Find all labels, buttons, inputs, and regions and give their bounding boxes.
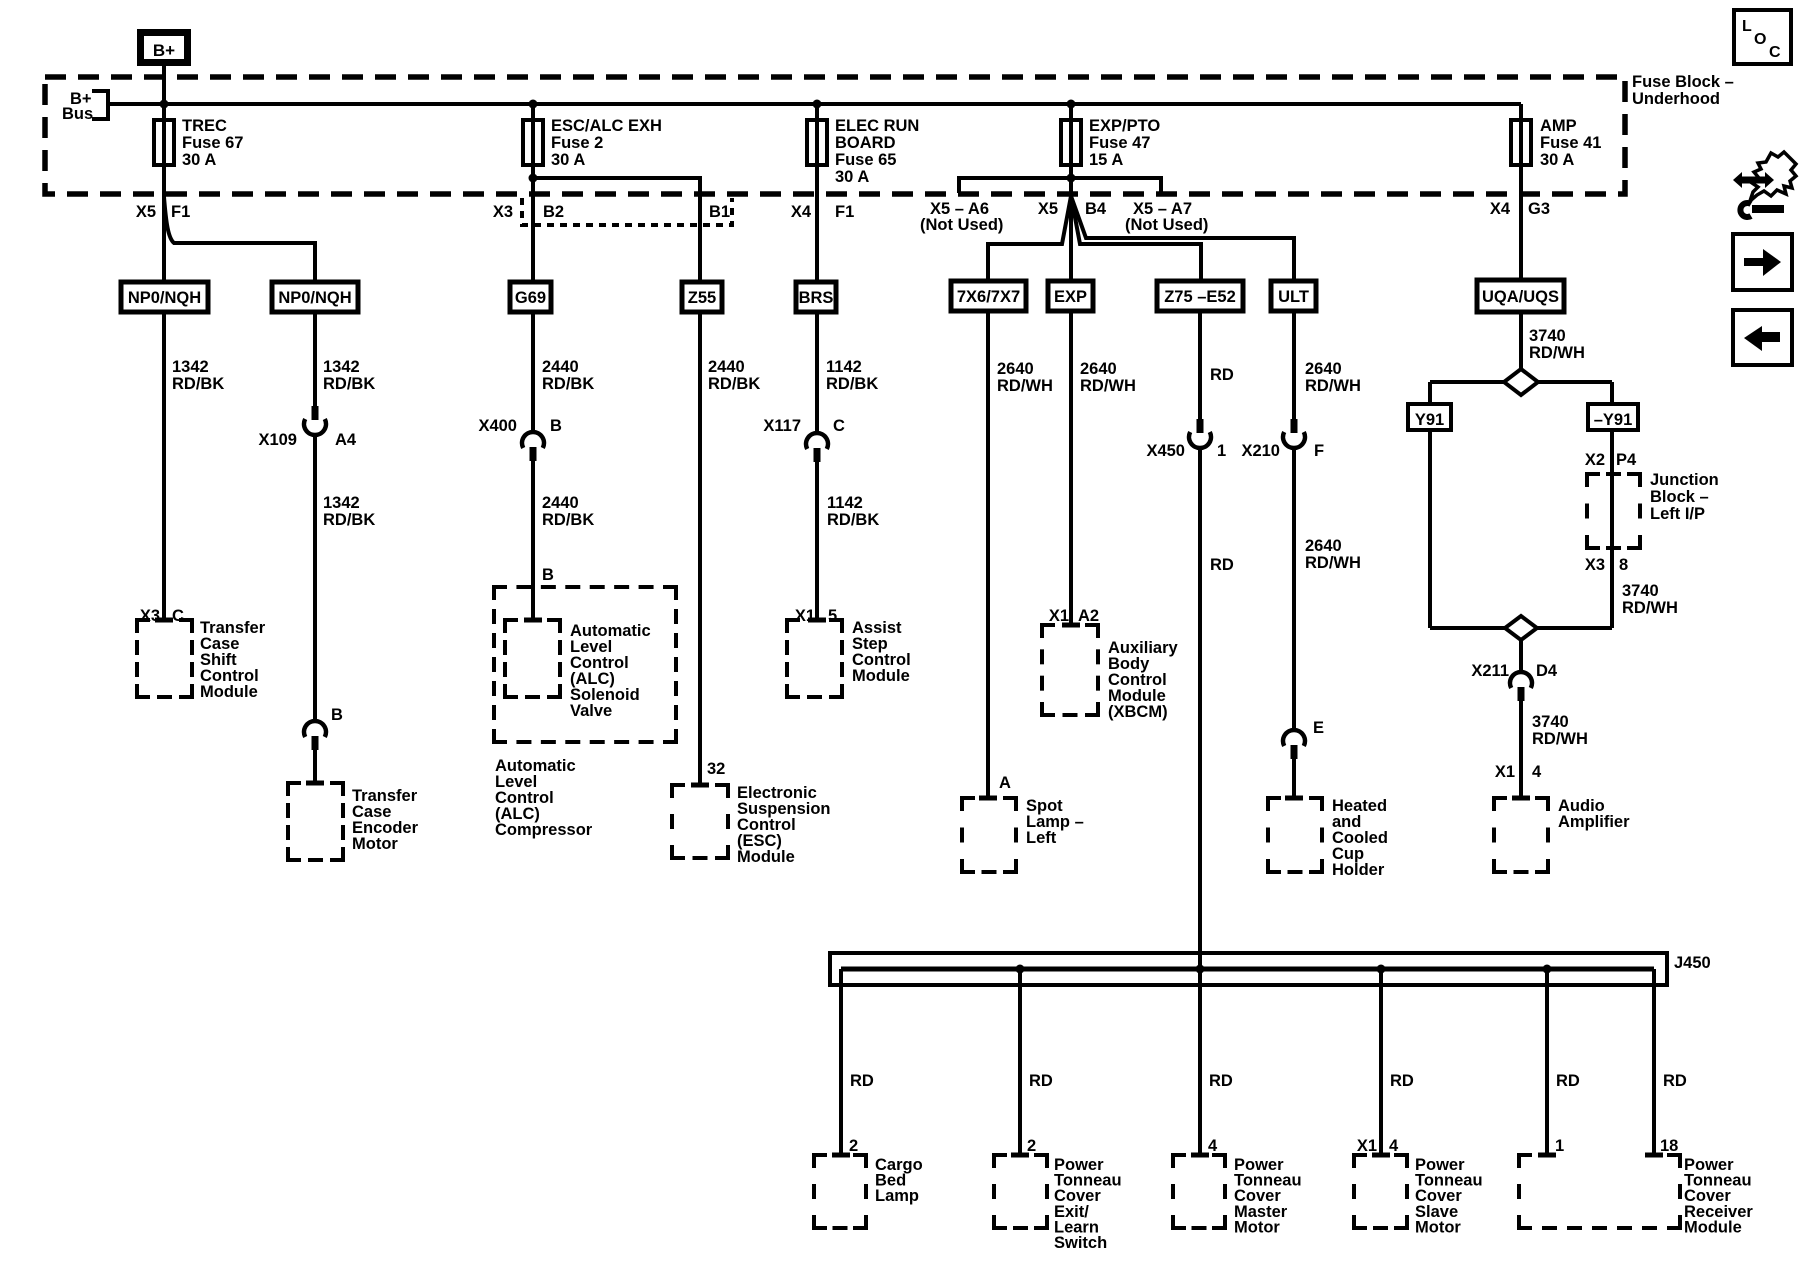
- svg-text:Compressor: Compressor: [495, 821, 593, 839]
- svg-text:RD/WH: RD/WH: [1532, 730, 1588, 748]
- svg-text:RD: RD: [1029, 1072, 1053, 1090]
- svg-text:Bus: Bus: [62, 105, 93, 123]
- svg-text:ELEC RUN: ELEC RUN: [835, 117, 919, 135]
- svg-text:Y91: Y91: [1415, 411, 1444, 429]
- svg-text:B: B: [542, 566, 554, 584]
- svg-text:X1: X1: [1495, 763, 1515, 781]
- svg-text:ULT: ULT: [1278, 288, 1309, 306]
- svg-text:Motor: Motor: [1234, 1218, 1280, 1236]
- svg-text:30 A: 30 A: [1540, 151, 1574, 169]
- svg-text:RD/WH: RD/WH: [1305, 554, 1361, 572]
- svg-text:O: O: [1754, 31, 1766, 48]
- svg-text:Fuse 65: Fuse 65: [835, 151, 896, 169]
- svg-text:1: 1: [1555, 1137, 1564, 1155]
- svg-text:X117: X117: [763, 417, 801, 435]
- svg-text:TREC: TREC: [182, 117, 227, 135]
- svg-text:1142: 1142: [827, 494, 863, 512]
- svg-text:B2: B2: [543, 203, 564, 221]
- svg-text:X109: X109: [258, 431, 297, 449]
- svg-text:Module: Module: [852, 667, 910, 685]
- svg-text:RD: RD: [1390, 1072, 1414, 1090]
- svg-text:RD/WH: RD/WH: [1622, 599, 1678, 617]
- svg-text:Module: Module: [200, 683, 258, 701]
- svg-text:Fuse 67: Fuse 67: [182, 134, 243, 152]
- svg-text:J450: J450: [1674, 954, 1711, 972]
- svg-text:RD/WH: RD/WH: [1305, 377, 1361, 395]
- svg-text:Module: Module: [737, 848, 795, 866]
- svg-text:2640: 2640: [1305, 360, 1342, 378]
- svg-text:Fuse 47: Fuse 47: [1089, 134, 1150, 152]
- svg-text:3740: 3740: [1532, 713, 1569, 731]
- svg-text:4: 4: [1208, 1137, 1218, 1155]
- svg-text:Valve: Valve: [570, 702, 612, 720]
- svg-text:ESC/ALC EXH: ESC/ALC EXH: [551, 117, 662, 135]
- svg-text:RD: RD: [1209, 1072, 1233, 1090]
- svg-text:Block –: Block –: [1650, 488, 1709, 506]
- svg-text:2: 2: [1027, 1137, 1036, 1155]
- svg-text:2640: 2640: [1080, 360, 1117, 378]
- svg-text:X4: X4: [1490, 200, 1511, 218]
- svg-text:Underhood: Underhood: [1632, 90, 1720, 108]
- svg-text:AMP: AMP: [1540, 117, 1577, 135]
- svg-text:–Y91: –Y91: [1594, 411, 1633, 429]
- svg-text:A4: A4: [335, 431, 357, 449]
- svg-text:Module: Module: [1684, 1218, 1742, 1236]
- svg-text:C: C: [833, 417, 845, 435]
- svg-text:NP0/NQH: NP0/NQH: [128, 289, 201, 307]
- svg-text:B+: B+: [153, 41, 175, 60]
- svg-text:X211: X211: [1471, 662, 1509, 680]
- svg-text:2440: 2440: [542, 358, 579, 376]
- svg-text:C: C: [172, 607, 184, 625]
- svg-text:15 A: 15 A: [1089, 151, 1123, 169]
- svg-text:(XBCM): (XBCM): [1108, 703, 1168, 721]
- svg-text:NP0/NQH: NP0/NQH: [278, 289, 351, 307]
- svg-text:E: E: [1313, 719, 1324, 737]
- svg-text:RD: RD: [1210, 556, 1234, 574]
- svg-text:RD: RD: [1663, 1072, 1687, 1090]
- svg-text:RD/BK: RD/BK: [827, 511, 879, 529]
- svg-text:2640: 2640: [1305, 537, 1342, 555]
- svg-text:RD/BK: RD/BK: [323, 375, 375, 393]
- svg-text:Switch: Switch: [1054, 1234, 1107, 1252]
- svg-text:30 A: 30 A: [835, 168, 869, 186]
- svg-text:Z75 –E52: Z75 –E52: [1164, 288, 1236, 306]
- svg-text:4: 4: [1532, 763, 1542, 781]
- svg-text:RD/BK: RD/BK: [323, 511, 375, 529]
- svg-text:RD: RD: [1210, 366, 1234, 384]
- svg-text:Z55: Z55: [688, 289, 716, 307]
- svg-text:X4: X4: [791, 203, 812, 221]
- svg-text:X3: X3: [1585, 556, 1605, 574]
- svg-text:X1: X1: [1049, 607, 1069, 625]
- svg-text:(Not Used): (Not Used): [1125, 216, 1208, 234]
- svg-text:Fuse Block –: Fuse Block –: [1632, 73, 1734, 91]
- svg-text:EXP/PTO: EXP/PTO: [1089, 117, 1160, 135]
- svg-text:RD/BK: RD/BK: [542, 511, 594, 529]
- svg-text:X2: X2: [1585, 451, 1605, 469]
- svg-text:Fuse 2: Fuse 2: [551, 134, 603, 152]
- svg-text:X1: X1: [1357, 1137, 1377, 1155]
- svg-text:P4: P4: [1616, 451, 1637, 469]
- svg-text:RD/BK: RD/BK: [172, 375, 224, 393]
- svg-text:G3: G3: [1528, 200, 1550, 218]
- svg-text:G69: G69: [515, 289, 546, 307]
- svg-text:(Not Used): (Not Used): [920, 216, 1003, 234]
- svg-text:F: F: [1314, 442, 1324, 460]
- svg-text:B: B: [331, 706, 343, 724]
- svg-text:C: C: [1769, 44, 1781, 61]
- svg-text:1342: 1342: [323, 494, 360, 512]
- svg-text:BOARD: BOARD: [835, 134, 896, 152]
- svg-text:X3: X3: [493, 203, 513, 221]
- svg-text:1342: 1342: [172, 358, 209, 376]
- svg-text:D4: D4: [1536, 662, 1558, 680]
- svg-text:B: B: [550, 417, 562, 435]
- svg-text:Holder: Holder: [1332, 861, 1385, 879]
- svg-text:3740: 3740: [1529, 327, 1566, 345]
- svg-text:A: A: [999, 774, 1011, 792]
- svg-text:B1: B1: [709, 203, 730, 221]
- svg-text:B4: B4: [1085, 200, 1107, 218]
- svg-text:F1: F1: [835, 203, 854, 221]
- svg-text:X5: X5: [1038, 200, 1058, 218]
- svg-text:A2: A2: [1078, 607, 1099, 625]
- svg-text:UQA/UQS: UQA/UQS: [1482, 288, 1559, 306]
- svg-text:18: 18: [1660, 1137, 1678, 1155]
- svg-text:7X6/7X7: 7X6/7X7: [957, 288, 1020, 306]
- svg-text:2440: 2440: [542, 494, 579, 512]
- svg-text:X450: X450: [1146, 442, 1185, 460]
- svg-text:Junction: Junction: [1650, 471, 1719, 489]
- svg-text:BRS: BRS: [799, 289, 834, 307]
- svg-text:1342: 1342: [323, 358, 360, 376]
- svg-text:Fuse 41: Fuse 41: [1540, 134, 1601, 152]
- svg-text:Motor: Motor: [1415, 1218, 1461, 1236]
- svg-text:RD: RD: [1556, 1072, 1580, 1090]
- svg-text:3740: 3740: [1622, 582, 1659, 600]
- svg-text:RD/WH: RD/WH: [1080, 377, 1136, 395]
- svg-text:32: 32: [707, 760, 725, 778]
- svg-text:Left: Left: [1026, 829, 1057, 847]
- svg-text:30 A: 30 A: [182, 151, 216, 169]
- svg-text:F1: F1: [171, 203, 190, 221]
- svg-text:5: 5: [828, 607, 837, 625]
- svg-text:L: L: [1742, 18, 1752, 35]
- svg-text:2440: 2440: [708, 358, 745, 376]
- svg-text:EXP: EXP: [1054, 288, 1087, 306]
- svg-text:Motor: Motor: [352, 835, 398, 853]
- svg-text:X400: X400: [478, 417, 517, 435]
- svg-text:30 A: 30 A: [551, 151, 585, 169]
- svg-text:RD/WH: RD/WH: [1529, 344, 1585, 362]
- svg-text:8: 8: [1619, 556, 1628, 574]
- svg-text:RD/BK: RD/BK: [708, 375, 760, 393]
- svg-text:1142: 1142: [826, 358, 862, 376]
- svg-text:RD/BK: RD/BK: [826, 375, 878, 393]
- svg-text:Lamp: Lamp: [875, 1187, 919, 1205]
- svg-text:2640: 2640: [997, 360, 1034, 378]
- svg-text:RD/WH: RD/WH: [997, 377, 1053, 395]
- svg-text:RD/BK: RD/BK: [542, 375, 594, 393]
- svg-text:X210: X210: [1241, 442, 1280, 460]
- svg-text:2: 2: [849, 1137, 858, 1155]
- svg-text:Left I/P: Left I/P: [1650, 505, 1705, 523]
- svg-text:4: 4: [1389, 1137, 1399, 1155]
- svg-text:1: 1: [1217, 442, 1226, 460]
- svg-text:Amplifier: Amplifier: [1558, 813, 1630, 831]
- svg-text:RD: RD: [850, 1072, 874, 1090]
- svg-text:X5: X5: [136, 203, 156, 221]
